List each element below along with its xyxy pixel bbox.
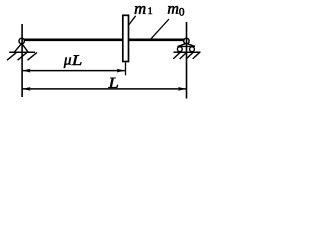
ground hatch left	[7, 52, 37, 60]
label m0 letter m	[168, 6, 178, 14]
beam (shaft)	[24, 38, 185, 41]
ground hatch right	[173, 52, 200, 59]
arrow muL right	[117, 69, 125, 73]
arrow muL left	[22, 69, 30, 73]
node left pivot circle	[19, 38, 24, 43]
label L of muL	[72, 55, 82, 65]
ground line left	[9, 51, 35, 53]
arrow L left	[22, 87, 30, 91]
wire left vertical post / extension line	[21, 24, 23, 97]
wire disc extension line	[125, 62, 127, 75]
dimension muL line	[22, 70, 124, 72]
label m0 subscript 0	[179, 8, 184, 16]
right support triangle	[177, 43, 195, 46]
label mu of muL	[64, 58, 71, 68]
arrow L right	[178, 87, 186, 91]
right roller left	[177, 47, 182, 52]
ground line right	[174, 51, 201, 53]
wire right vertical post / extension line	[186, 22, 188, 99]
left support triangle	[14, 43, 28, 52]
label m1 subscript 1	[149, 7, 153, 14]
label m1 letter m	[135, 6, 146, 14]
node right pivot circle	[184, 38, 189, 43]
m1 leader line	[129, 16, 136, 25]
label L dimension	[108, 78, 118, 88]
m0 leader line	[151, 19, 169, 39]
disc (mass m1)	[123, 15, 129, 61]
right roller right	[190, 47, 195, 52]
dimension L line	[22, 88, 186, 90]
